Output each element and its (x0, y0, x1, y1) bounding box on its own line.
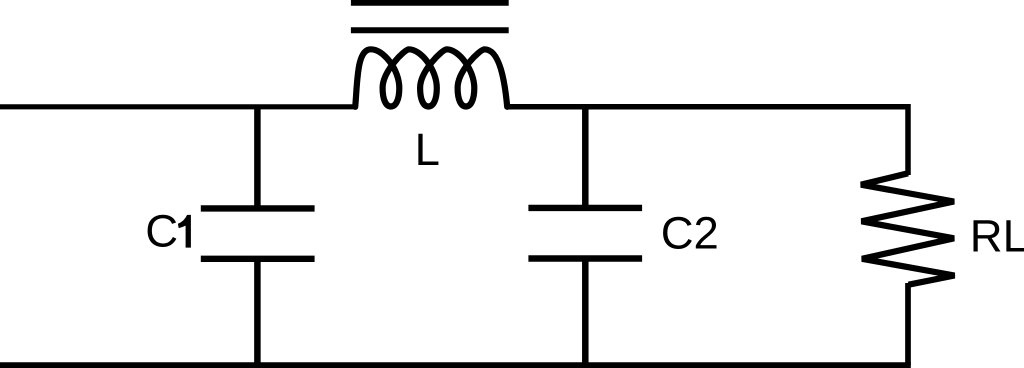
capacitor C1 bottom plate (201, 256, 315, 262)
resistor RL bottom lead (905, 283, 911, 365)
svg-text:L: L (415, 124, 440, 175)
wire bottom horizontal (0, 362, 911, 368)
svg-text:RL: RL (970, 211, 1024, 262)
capacitor C2 top plate (528, 205, 642, 211)
capacitor C1 top lead (254, 107, 261, 209)
inductor L coil (355, 49, 507, 107)
inductor L core bar 2 (351, 27, 509, 33)
wire top-left horizontal (0, 104, 354, 109)
inductor L core bar 1 (351, 0, 509, 6)
capacitor C1 top plate (201, 205, 315, 211)
capacitor C2 bottom lead (582, 259, 589, 366)
resistor RL zigzag (861, 173, 955, 284)
capacitor C1 bottom lead (254, 259, 261, 366)
svg-text:C2: C2 (661, 207, 719, 258)
capacitor C2 bottom plate (528, 255, 642, 261)
capacitor C2 top lead (582, 107, 589, 208)
wire top-right horizontal with corner to resistor (507, 107, 908, 175)
label C1 digit 1 (178, 215, 191, 248)
svg-text:C: C (145, 205, 178, 256)
